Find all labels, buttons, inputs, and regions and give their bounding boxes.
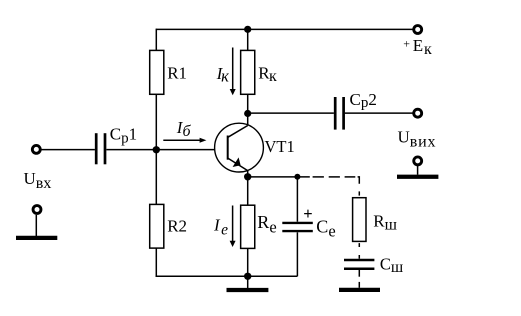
terminal output [414, 109, 422, 117]
capacitor Ce [282, 223, 313, 231]
terminal +Ek [414, 26, 422, 34]
resistor Re [241, 205, 255, 248]
dashed wire to Rsh [313, 177, 360, 196]
svg-text:Uвих: Uвих [398, 127, 437, 150]
svg-text:Iе: Iе [213, 215, 228, 238]
wire R1 bottom lead [155, 94, 157, 150]
terminal input ground post [33, 206, 41, 214]
svg-text:Cр2: Cр2 [350, 90, 377, 111]
wire Cp1 to base node [106, 149, 226, 151]
terminal input [32, 145, 40, 153]
dashed wire Rsh to Csh [358, 243, 360, 259]
svg-text:VT1: VT1 [265, 137, 295, 156]
node Ce branch [294, 174, 300, 180]
wire input to Cp1 [42, 149, 95, 151]
svg-text:Cш: Cш [380, 255, 404, 276]
svg-text:Rк: Rк [258, 63, 277, 85]
capacitor Ce bottom lead [296, 232, 298, 276]
current arrow Ib [163, 138, 206, 143]
svg-text:Iб: Iб [176, 118, 192, 140]
wire Rk top lead [247, 29, 249, 50]
wire R1 top lead [155, 29, 157, 51]
resistor R2 [150, 204, 164, 248]
capacitor Ce top lead [296, 177, 298, 222]
svg-text:R1: R1 [167, 63, 187, 82]
wire emitter horizontal [248, 176, 310, 178]
node base junction [153, 146, 160, 153]
svg-text:Rш: Rш [373, 211, 397, 233]
wire base node down to R2 [155, 150, 157, 205]
node emitter ground junction [244, 273, 251, 280]
resistor R1 [150, 50, 164, 94]
current arrow Ie [230, 206, 236, 248]
svg-text:R2: R2 [167, 217, 187, 236]
svg-text:Uвх: Uвх [24, 169, 52, 192]
wire top rail [156, 28, 413, 30]
ground input [16, 236, 57, 240]
wire emitter ground stub [247, 276, 249, 288]
svg-text:Iк: Iк [216, 64, 229, 86]
wire R2 bottom lead [155, 248, 157, 277]
svg-text:+: + [303, 204, 312, 223]
svg-text:Cе: Cе [316, 217, 335, 241]
ground output [397, 175, 438, 179]
current arrow Ik [230, 48, 236, 96]
transistor VT1 [215, 123, 264, 172]
svg-text:Rе: Rе [257, 212, 276, 237]
node top rail junction [244, 26, 251, 33]
resistor Rsh [353, 198, 366, 242]
wire collector to Cp2 [248, 112, 334, 114]
capacitor Csh [344, 260, 374, 269]
wire bottom horizontal [156, 275, 298, 277]
svg-text:Cр1: Cр1 [110, 124, 137, 146]
node collector junction [244, 110, 251, 117]
ground emitter [227, 288, 269, 292]
wire output ground stub [417, 166, 419, 175]
resistor Rk [241, 50, 255, 94]
capacitor Cp1 [96, 133, 105, 164]
ground Csh [339, 288, 380, 292]
dashed wire Csh to ground [358, 270, 360, 288]
svg-text:+: + [403, 37, 410, 51]
terminal output ground post [414, 157, 422, 165]
wire input ground stub [35, 215, 37, 236]
capacitor Cp2 [335, 97, 343, 130]
wire Cp2 to output [345, 112, 413, 114]
wire collector stub [247, 114, 249, 126]
wire Re bottom lead [247, 248, 249, 276]
svg-text:Eк: Eк [413, 36, 432, 58]
wire Rk bottom lead [247, 94, 249, 113]
node emitter junction [244, 173, 251, 180]
wire emitter lead [247, 170, 249, 205]
